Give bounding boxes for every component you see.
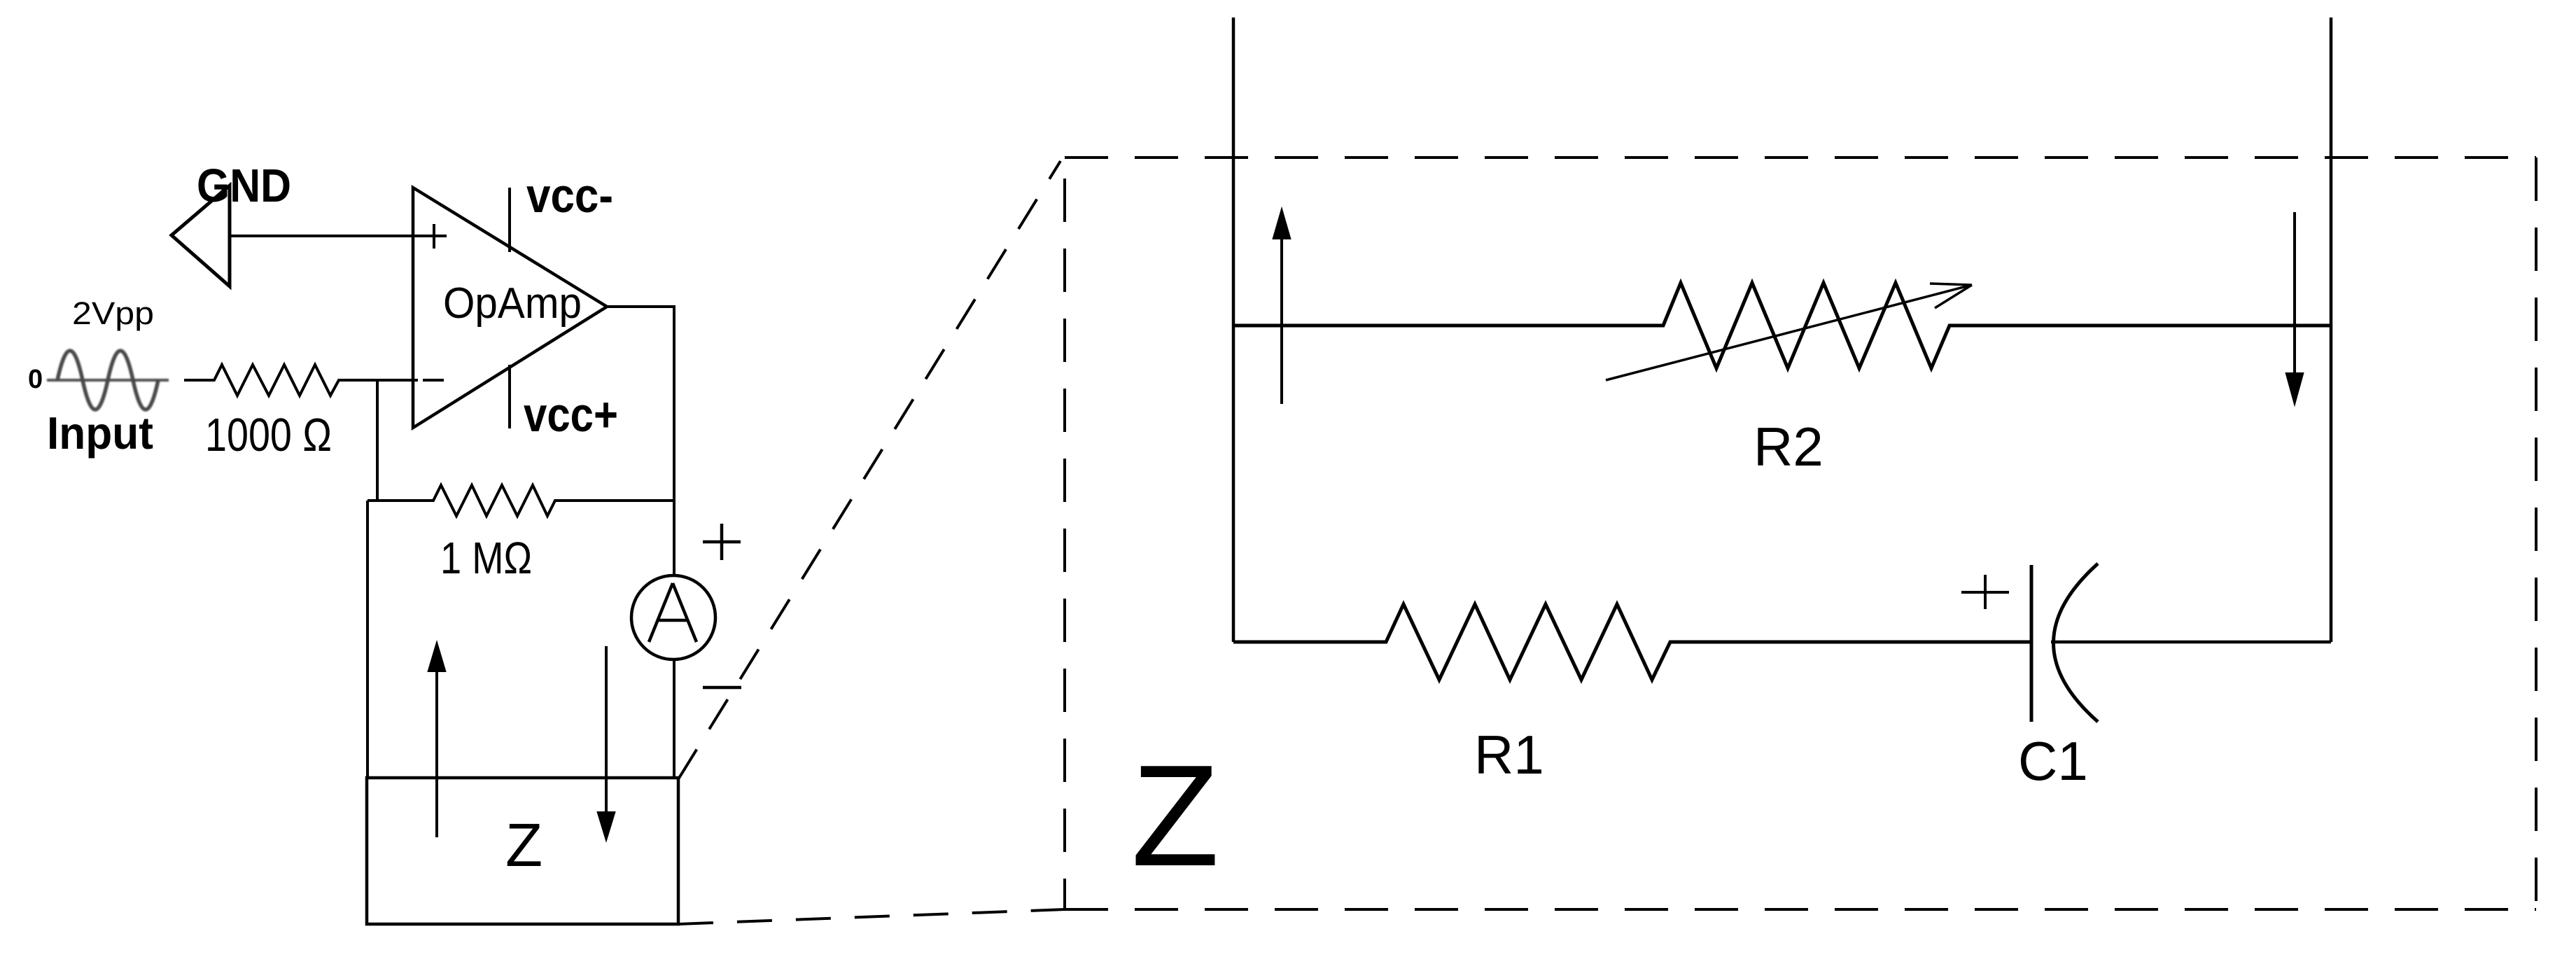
svg-text:Z: Z bbox=[1131, 735, 1219, 896]
svg-text:2Vpp: 2Vpp bbox=[72, 295, 154, 331]
svg-text:1000 Ω: 1000 Ω bbox=[205, 409, 332, 461]
svg-text:1 MΩ: 1 MΩ bbox=[440, 533, 532, 583]
svg-text:C1: C1 bbox=[2018, 730, 2088, 792]
svg-text:Input: Input bbox=[47, 407, 153, 459]
svg-text:vcc+: vcc+ bbox=[524, 387, 618, 442]
svg-text:0: 0 bbox=[28, 365, 43, 394]
svg-text:OpAmp: OpAmp bbox=[443, 279, 582, 328]
svg-text:GND: GND bbox=[197, 160, 291, 212]
svg-text:R2: R2 bbox=[1753, 416, 1823, 477]
svg-text:R1: R1 bbox=[1474, 724, 1544, 785]
svg-text:vcc-: vcc- bbox=[526, 168, 613, 223]
svg-text:Z: Z bbox=[505, 811, 542, 879]
